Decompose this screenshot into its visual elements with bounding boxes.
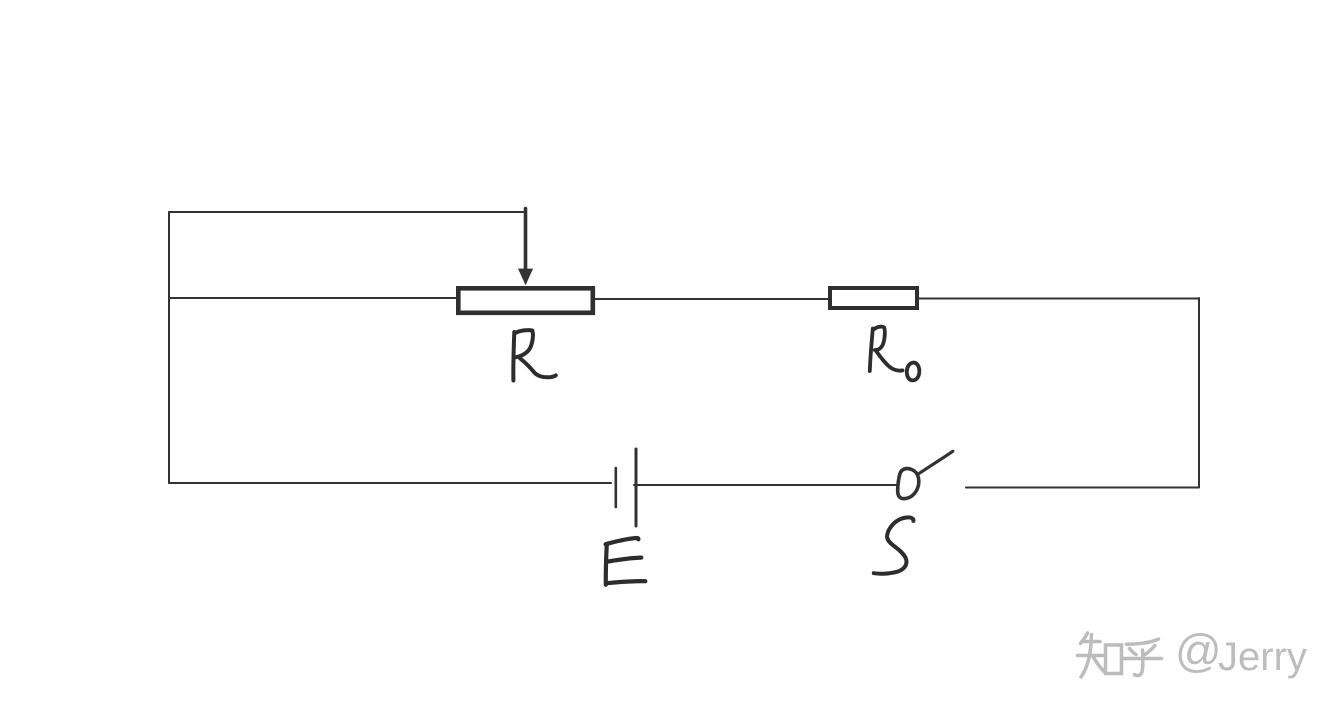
svg-text:Jerry: Jerry (1218, 635, 1307, 679)
svg-text:@: @ (1175, 625, 1222, 677)
